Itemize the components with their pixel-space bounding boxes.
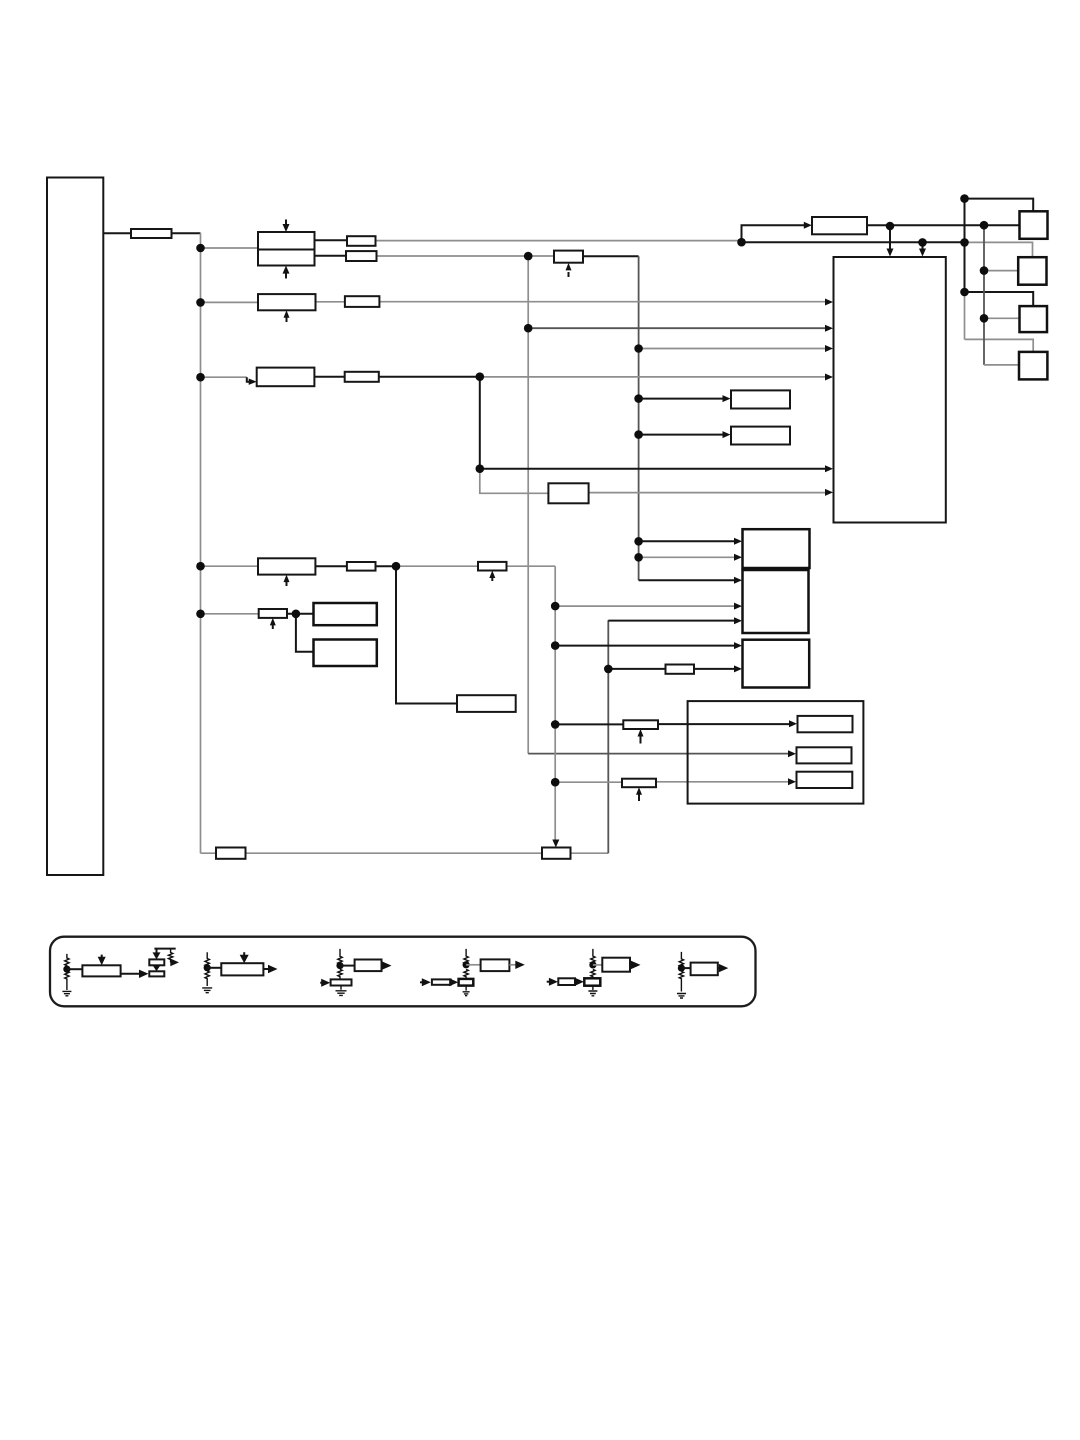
arrow: IC in y302 xyxy=(825,299,833,306)
wire: C tap into IC y328 xyxy=(528,327,827,329)
wire: item4 out xyxy=(509,964,516,966)
node: bus row5 xyxy=(196,610,205,619)
block: box fed from x396 xyxy=(457,695,516,712)
arrow: inner box3 in xyxy=(788,778,796,785)
wire: row4 box to resistor xyxy=(315,565,347,567)
wire: main block to R1 xyxy=(103,232,131,234)
wire: bus tap row5 xyxy=(201,613,259,615)
wire: bus tap row2 xyxy=(201,301,259,303)
resistor: row2 xyxy=(345,296,380,307)
resistor: row4 xyxy=(347,562,376,571)
wire: vertical line B right cluster xyxy=(983,225,985,365)
node: line B y318 xyxy=(980,314,989,323)
arrow: IC in y377 xyxy=(825,374,833,381)
block: item5 first small box xyxy=(558,978,575,985)
node xyxy=(63,966,70,973)
node: line B top xyxy=(980,221,989,230)
block: item1 small lower xyxy=(149,971,164,976)
wire: drop into IC top 2 xyxy=(922,242,924,249)
block: tall source panel xyxy=(47,178,103,876)
wire: y468 run into IC xyxy=(480,468,828,470)
wire: item4 entry xyxy=(420,981,423,983)
arrow: item1 box top xyxy=(101,955,103,959)
arrow: stack3 in a xyxy=(734,642,742,649)
arrow: inner box2 in xyxy=(788,750,796,757)
wire: row5 resistor to node xyxy=(287,613,314,615)
node: E y645 xyxy=(551,641,560,650)
block: item4 box xyxy=(481,959,510,971)
node: E y606 xyxy=(551,602,560,611)
resistor: r782 with arrow xyxy=(622,779,656,788)
node: row3 x479 xyxy=(476,372,485,381)
block: stacked pair lower xyxy=(314,640,377,667)
ground xyxy=(588,986,597,996)
wire: square3 top feed xyxy=(965,292,1034,306)
block: item4 shunt box xyxy=(459,979,474,986)
legend item2 input rail xyxy=(205,952,209,986)
wire: D tap into IC y348 xyxy=(639,348,828,350)
block: stacked pair upper xyxy=(314,603,377,625)
arrow: into box A top xyxy=(285,220,287,227)
wire: square3 left feed xyxy=(984,317,1020,319)
node: x608 y668 xyxy=(604,665,613,674)
wire: D tap stack box1 b xyxy=(639,556,737,558)
wire: row3 jog xyxy=(247,377,251,382)
arrow: IC in y492 xyxy=(825,489,833,496)
node: D y398 xyxy=(634,394,643,403)
block: stack box3 xyxy=(743,640,810,688)
block: box A dual section xyxy=(258,232,315,266)
resistor: row1 upper xyxy=(347,236,376,246)
node: line B y270 xyxy=(980,266,989,275)
wire: box492 out into IC xyxy=(589,492,828,494)
wire: drop into IC top 1 xyxy=(889,226,891,250)
block: item2 box xyxy=(221,963,263,975)
arrow: into shunt box xyxy=(575,978,584,986)
wire: row3 long run into IC xyxy=(480,376,828,378)
block: inner box3 xyxy=(797,772,853,788)
wire xyxy=(67,968,83,970)
block: bottom line box left xyxy=(216,848,246,859)
wire: r724 to inner box1 xyxy=(658,723,792,725)
block: item6 box xyxy=(691,963,718,976)
wire: item2 out xyxy=(263,968,269,970)
block: main IC box xyxy=(834,257,946,523)
wire: row3 box to resistor xyxy=(314,376,344,378)
arrow: stack1 in b xyxy=(734,554,742,561)
wire: row2 box to resistor xyxy=(316,301,345,303)
arrow: item2 box top xyxy=(243,952,245,955)
node: D y541 xyxy=(634,537,643,546)
wire: E tap inner box1 left part xyxy=(555,723,623,725)
node: E y782 xyxy=(551,778,560,787)
wire: row1 upper long run xyxy=(376,240,742,242)
block: square S2 xyxy=(1018,257,1046,285)
arrow: IC top drop2 head xyxy=(919,249,926,257)
wire: item5 entry xyxy=(547,981,549,983)
wire: r256 to line D corner xyxy=(583,255,639,257)
wire: bus bottom horizontal run xyxy=(201,852,609,854)
node xyxy=(589,961,596,968)
block: item1 box xyxy=(82,965,120,976)
wire: vertical x479 xyxy=(479,377,481,469)
resistor: row3 xyxy=(345,372,379,382)
wire: bottom riser x608 xyxy=(607,620,609,853)
block: stack box2 xyxy=(743,570,809,633)
node: y242 junction xyxy=(737,238,746,247)
arrow: into box A bottom xyxy=(285,272,287,279)
arrow: stack2 in b xyxy=(734,603,742,610)
arrow: between small boxes xyxy=(153,965,161,971)
wire: vertical line A right cluster xyxy=(964,199,966,292)
block: box y492 xyxy=(548,483,588,503)
arrow: IC in y348 xyxy=(825,345,833,352)
block: outlined group box xyxy=(688,701,864,804)
resistor: r724 with arrow xyxy=(623,720,658,729)
wire xyxy=(340,965,355,967)
arrow: into shunt box xyxy=(320,982,322,984)
wire: item6 out xyxy=(718,967,720,969)
wire: x608 tap to r669 xyxy=(608,668,665,670)
wire: item1 top bar xyxy=(154,948,175,950)
block: item1 small upper xyxy=(149,959,164,965)
arrow: line E down into bottom box xyxy=(552,840,559,848)
node xyxy=(204,964,211,971)
arrow: bar down into upper box xyxy=(156,949,158,953)
node: C y328 xyxy=(524,324,533,333)
legend item5 rail xyxy=(591,949,595,978)
wire: bus tap row1 xyxy=(201,247,259,249)
block: square S3 xyxy=(1020,306,1048,332)
wire: item1 out xyxy=(121,973,140,975)
block: square S4 xyxy=(1019,352,1047,380)
node: row4 x396 xyxy=(392,562,401,571)
wire: x608 corner into stack box2 xyxy=(608,620,736,622)
wire: D tap mid box2 xyxy=(639,434,725,436)
resistor: row1 lower xyxy=(346,251,377,261)
wire: row5 node drop and corner xyxy=(296,614,314,652)
block: row4 box xyxy=(258,558,315,574)
wire: row1 upper out of box A xyxy=(315,239,348,241)
resistor: row5 xyxy=(259,609,287,618)
node: row5 x295 xyxy=(292,610,301,619)
arrow: stack1 in a xyxy=(734,538,742,545)
arrow: inner box1 in xyxy=(789,720,797,727)
node: D y434 xyxy=(634,430,643,439)
wire: vertical line D xyxy=(638,256,640,580)
arrow: stack3 in b xyxy=(734,665,742,672)
wire: E tap inner box3 left part xyxy=(555,781,622,783)
wire: top resistor out xyxy=(867,224,1020,226)
wire: E tap stack box3 xyxy=(555,645,736,647)
node: y242 drop junction xyxy=(918,238,927,247)
wire: r4b to line E corner xyxy=(507,565,556,567)
wire: item5 out xyxy=(630,964,632,966)
arrow: stack2 in a xyxy=(734,577,742,584)
legend item4 rail xyxy=(464,949,468,979)
resistor: row4 second with arrow xyxy=(478,562,507,571)
node xyxy=(336,962,343,969)
block: middle box 1 xyxy=(731,390,790,408)
arrow: into row4 box bottom xyxy=(286,580,288,586)
arrow: mid box1 in xyxy=(723,395,731,402)
block: row3 box xyxy=(257,368,315,387)
ground xyxy=(677,994,686,999)
wire: row1 lower to node C xyxy=(377,255,555,257)
arrow: mid box2 in xyxy=(723,431,731,438)
resistor: top feed resistor T1 xyxy=(812,217,867,234)
node xyxy=(678,965,685,972)
block: inner box1 xyxy=(798,716,853,732)
wire: row4 node to r4b xyxy=(396,565,478,567)
wire: line B corner to square4 left xyxy=(984,364,1019,366)
arrow: into row2 box bottom xyxy=(286,316,288,322)
wire xyxy=(593,964,602,966)
legend: rounded frame xyxy=(50,937,756,1007)
wire: y242 gray tail to square2 top xyxy=(965,242,1033,257)
wire: row2 long run into IC xyxy=(379,301,827,303)
wire: D tap mid box1 xyxy=(639,398,725,400)
wire: stub up to top resistor xyxy=(742,225,806,242)
node: D y557 xyxy=(634,553,643,562)
block: middle box 2 xyxy=(731,427,790,445)
arrow: IC in y468 xyxy=(825,465,833,472)
arrow: stack2 in c xyxy=(734,617,742,624)
wire: bus tap row3 xyxy=(201,376,247,378)
node: bus row1 xyxy=(196,244,205,253)
wire: r782 to inner box3 xyxy=(656,781,791,783)
node: line A top xyxy=(960,194,969,203)
wire: vertical line C xyxy=(527,256,529,753)
wire: row1 lower out of box A xyxy=(315,255,347,257)
wire xyxy=(207,967,221,969)
node: D y348 xyxy=(634,344,643,353)
arrow: into T1 xyxy=(804,222,812,229)
node: bus row3 xyxy=(196,373,205,382)
node: line A y242 xyxy=(960,238,969,247)
wire: row3 resistor to node xyxy=(379,376,480,378)
node: line A y292 xyxy=(960,288,969,297)
arrow: into row5 resistor bottom xyxy=(272,624,274,630)
block: row2 box xyxy=(258,294,316,310)
wire: E tap stack box2 xyxy=(555,605,736,607)
block: inner box2 xyxy=(797,747,852,763)
wire: left bus vertical xyxy=(200,233,202,853)
wire: y242 run right xyxy=(742,241,965,243)
block: item3 shunt box xyxy=(331,979,352,985)
wire: vertical x479 lower + corner xyxy=(480,469,549,494)
block: item5 box xyxy=(602,958,630,972)
legend item1 input rail xyxy=(65,954,69,990)
block: stack box1 xyxy=(743,529,810,568)
wire: D tap stack box1 a xyxy=(639,540,737,542)
ground xyxy=(463,986,470,996)
block: square S1 xyxy=(1020,211,1048,239)
resistor: item1 bar zigzag xyxy=(168,949,172,963)
wire: square2 left feed xyxy=(984,270,1018,272)
legend item6 rail xyxy=(679,952,683,992)
ground xyxy=(62,991,71,995)
ground xyxy=(202,988,212,993)
resistor: r669 xyxy=(666,665,695,674)
node: T1 out junction xyxy=(886,222,895,231)
arrow: IC in y328 xyxy=(825,325,833,332)
wire: R1 to bus corner xyxy=(172,232,201,234)
block: item5 shunt box xyxy=(584,978,600,985)
node: bus row2 xyxy=(196,298,205,307)
wire xyxy=(466,964,481,966)
ground xyxy=(336,986,347,996)
legend item3 rail xyxy=(338,949,342,980)
node: E y724 xyxy=(551,720,560,729)
wire: row4 resistor to node xyxy=(376,565,397,567)
node: bus row4 xyxy=(196,562,205,571)
wire: square1 top feed xyxy=(965,199,1034,212)
wire: x396 drop and corner xyxy=(396,566,457,703)
wire: r669 into stack box3 xyxy=(694,668,737,670)
wire: vertical line E xyxy=(554,566,556,840)
node: C top xyxy=(524,252,533,261)
arrow: row3 jog head xyxy=(249,379,257,385)
resistor: R1 main feed xyxy=(131,229,172,238)
block: item3 box xyxy=(355,960,382,972)
block: item4 first small box xyxy=(432,979,451,984)
node: x479 y468 xyxy=(476,464,485,473)
wire: item3 out xyxy=(382,965,384,967)
wire xyxy=(681,967,690,969)
arrow: into shunt box xyxy=(449,978,458,986)
wire: bus tap row4 xyxy=(201,565,259,567)
arrow: IC top drop1 head xyxy=(887,249,894,257)
block: bottom line box right xyxy=(542,848,571,859)
arrow: item1 right out xyxy=(170,959,179,967)
wire: line C corner into inner box2 xyxy=(528,753,790,755)
wire: line A corner to square4 top xyxy=(965,339,1034,352)
wire: line D corner into stack box2 xyxy=(639,579,737,581)
resistor: r256 with arrow xyxy=(554,251,583,263)
node xyxy=(463,961,470,968)
